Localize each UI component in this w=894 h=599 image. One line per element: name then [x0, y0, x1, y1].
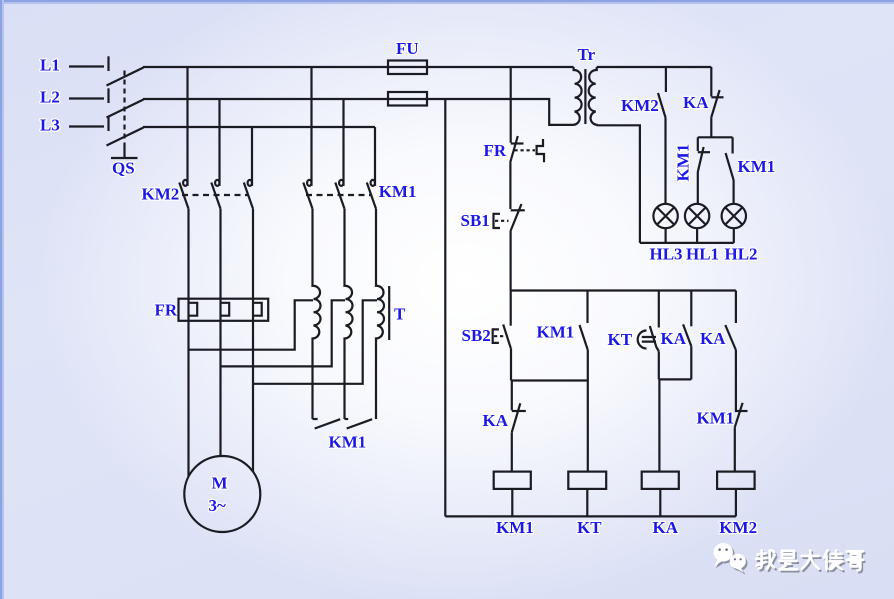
contactor KM1 star contact 1 tick: [313, 418, 318, 420]
contactor KM1 label: [379, 182, 417, 201]
svg-text:SB1: SB1: [461, 211, 490, 230]
contactor KM2 pole 1: [179, 67, 188, 209]
wire L3 bus: [143, 126, 375, 128]
contactor KM1 pole 3: [367, 127, 376, 209]
wire secondary bottom to lamp rail: [597, 125, 640, 243]
autotransformer T winding 2: [345, 209, 353, 419]
contact KT delay symbol: [638, 331, 656, 349]
svg-text:FR: FR: [484, 141, 507, 160]
wire KT lower: [658, 351, 660, 379]
svg-text:HL2: HL2: [725, 245, 758, 264]
svg-text:FU: FU: [396, 39, 419, 58]
pushbutton SB1 NC: [511, 204, 525, 231]
lamp HL1: [685, 204, 709, 228]
contact KA parallel label: [661, 329, 687, 348]
contact KM2 lamp label: [621, 96, 659, 115]
contact KM1 HL1 label vertical: [674, 144, 693, 182]
svg-text:KM1: KM1: [738, 157, 776, 176]
switch QS linkage dashed: [123, 71, 125, 144]
wire L2 lead: [69, 97, 104, 99]
svg-text:KM1: KM1: [537, 323, 575, 342]
wire KM1 aux to KT coil: [587, 350, 589, 472]
svg-text:KA: KA: [483, 411, 509, 430]
svg-text:HL3: HL3: [650, 245, 683, 264]
svg-text:KT: KT: [577, 518, 602, 537]
fuse FU1: [388, 61, 427, 75]
contact KA parallel NO: [683, 291, 691, 380]
wire L3 lead: [69, 125, 104, 127]
node L3: [40, 115, 60, 134]
switch QS pole 2 blade: [107, 100, 144, 118]
thermal relay FR heater 3: [253, 303, 262, 316]
thermal relay FR outer box: [179, 299, 269, 321]
wire SB1 to rail node: [510, 231, 512, 291]
wire L2 bus to transformer primary: [143, 99, 574, 125]
switch QS stem: [111, 143, 138, 158]
contactor KM1 pole 1: [303, 67, 312, 209]
contact KA right label: [700, 329, 726, 348]
wire lamp split bar: [698, 136, 733, 138]
autotransformer T label: [394, 305, 406, 324]
svg-text:KM1: KM1: [329, 433, 367, 452]
contactor KM1 star label: [329, 433, 367, 452]
transformer Tr core: [584, 69, 586, 124]
thermal relay FR label: [155, 301, 178, 320]
pushbutton SB1 label: [461, 211, 490, 230]
switch QS pole 2 fixed contact: [107, 88, 109, 103]
wire control left rail upper: [510, 67, 512, 143]
fuse FU label: [396, 39, 419, 58]
contactor KM2 pole 2: [211, 99, 220, 209]
wire tap 2 to autotransformer: [221, 300, 346, 366]
thermal contact FR dashed link: [515, 149, 536, 151]
transformer Tr label: [578, 45, 596, 64]
coil KT label: [577, 518, 602, 537]
autotransformer T winding 1: [313, 209, 321, 419]
contactor KM1 star contact 2 tick: [345, 418, 349, 420]
lamp HL2: [722, 204, 746, 228]
wire to KA coil: [658, 379, 660, 471]
thermal contact FR label: [484, 141, 507, 160]
contactor KM1 star blade 1: [315, 419, 341, 428]
svg-text:KM1: KM1: [496, 518, 534, 537]
svg-text:FR: FR: [155, 301, 178, 320]
wire KM2 phase 3 to motor: [252, 209, 254, 472]
wire lamp HL2 stub: [733, 228, 735, 243]
thermal relay FR heater 2: [221, 303, 230, 316]
svg-text:T: T: [394, 305, 406, 324]
coil KT: [568, 472, 606, 489]
svg-text:KA: KA: [653, 518, 679, 537]
node L2: [40, 87, 60, 106]
svg-text:KM2: KM2: [621, 96, 659, 115]
contactor KM1 star blade 2: [347, 419, 372, 428]
contact KM1 NC label: [697, 409, 735, 428]
wire control return rail: [444, 99, 446, 516]
motor M label: [209, 474, 228, 515]
wire KM2 coil stub: [735, 489, 737, 517]
contact KA NC before KM1 coil: [512, 381, 526, 433]
switch QS pole 3 fixed contact: [107, 116, 109, 131]
svg-text:KM1: KM1: [674, 144, 693, 182]
wire L1 bus: [143, 66, 574, 68]
wire L1 lead: [69, 65, 104, 67]
fuse FU2: [388, 92, 427, 106]
lamp HL3: [653, 204, 677, 228]
contact KM1 HL2 label: [738, 157, 776, 176]
contactor KM2 label: [142, 184, 180, 203]
svg-text:KA: KA: [661, 329, 687, 348]
contact KM1 aux label: [537, 323, 575, 342]
wire lamp HL1 stub: [696, 228, 698, 243]
svg-text:L1: L1: [40, 55, 60, 74]
transformer Tr primary winding: [574, 67, 582, 125]
svg-text:KA: KA: [700, 329, 726, 348]
svg-text:KT: KT: [608, 330, 633, 349]
contact KM1 NC before KM2 coil: [735, 403, 748, 472]
contact KT timed NO: [650, 291, 659, 352]
svg-text:HL1: HL1: [686, 245, 719, 264]
wire FR to SB1: [509, 163, 511, 210]
wire lamp bottom rail: [640, 242, 734, 244]
coil KM2 label: [719, 518, 757, 537]
coil KM2: [717, 472, 755, 489]
svg-text:SB2: SB2: [462, 326, 491, 345]
lamp HL2 label: [725, 245, 758, 264]
wire lamp HL3 stub: [664, 228, 666, 243]
autotransformer T winding 3: [376, 209, 384, 419]
wire KM2 phase 2 to motor: [219, 209, 221, 456]
contact KM1 HL2 branch NO: [726, 137, 734, 204]
thermal contact FR NC: [510, 136, 523, 163]
wire secondary top rail: [597, 66, 712, 68]
contactor KM2 pole 3: [244, 127, 253, 209]
switch QS label: [112, 159, 135, 178]
thermal contact FR reset hook: [537, 139, 544, 162]
wire KT coil stub: [586, 489, 588, 517]
svg-text:L3: L3: [40, 115, 60, 134]
watermark wechat icon: [714, 543, 748, 575]
contactor KM1 linkage dashed: [306, 194, 372, 196]
switch QS pole 1 blade: [107, 68, 144, 86]
wire SB2-KM1 junction bar: [511, 379, 588, 381]
wire KM2 phase 1 to motor: [187, 209, 189, 477]
pushbutton SB1 actuator: [494, 214, 509, 228]
contactor KM2 linkage dashed: [182, 194, 248, 196]
svg-text:QS: QS: [112, 159, 135, 178]
contact KA lamp label: [683, 93, 709, 112]
coil KM1: [494, 472, 531, 489]
svg-text:KA: KA: [683, 93, 709, 112]
watermark text: [756, 550, 864, 572]
contact KM2 lamp branch: [658, 67, 666, 204]
svg-text:M: M: [212, 474, 228, 493]
switch QS pole 1 fixed contact: [107, 56, 109, 71]
coil KA: [642, 472, 679, 489]
transformer Tr secondary winding: [589, 67, 597, 125]
svg-text:3~: 3~: [209, 496, 227, 515]
svg-text:L2: L2: [40, 87, 60, 106]
contact KM1 HL1 branch NC: [698, 137, 710, 204]
svg-text:KM2: KM2: [719, 518, 757, 537]
wire tap 1 to autotransformer: [189, 300, 314, 349]
contact KA lamp branch NC: [711, 67, 723, 137]
wire tap 3 to autotransformer: [253, 300, 377, 384]
wire KT-KA junction bar: [659, 378, 692, 380]
coil KM1 label: [496, 518, 534, 537]
lamp HL1 label: [686, 245, 719, 264]
contact KA NC label: [483, 411, 509, 430]
svg-text:Tr: Tr: [578, 45, 596, 64]
contact KA right branch NO: [725, 291, 736, 411]
pushbutton SB2 actuator: [493, 329, 507, 343]
svg-text:KM1: KM1: [697, 409, 735, 428]
pushbutton SB2 label: [462, 326, 491, 345]
contactor KM1 pole 2: [335, 99, 344, 209]
switch QS pole 3 blade: [107, 128, 144, 146]
pushbutton SB2 NO: [503, 291, 511, 381]
coil KA label: [653, 518, 679, 537]
wire KM1 coil stub: [511, 489, 513, 517]
motor M circle: [184, 456, 260, 532]
wire control bottom rail: [445, 515, 736, 517]
wire control top rail: [511, 289, 736, 291]
svg-text:KM1: KM1: [379, 182, 417, 201]
wire KA NC to KM1 coil: [511, 432, 513, 471]
lamp HL3 label: [650, 245, 683, 264]
contact KM1 aux NO: [580, 291, 588, 351]
wire KA coil stub: [659, 489, 661, 517]
thermal relay FR heater 1: [189, 303, 198, 316]
autotransformer T core bar: [388, 286, 390, 340]
contact KT label: [608, 330, 633, 349]
svg-text:KM2: KM2: [142, 184, 180, 203]
node L1: [40, 55, 60, 74]
